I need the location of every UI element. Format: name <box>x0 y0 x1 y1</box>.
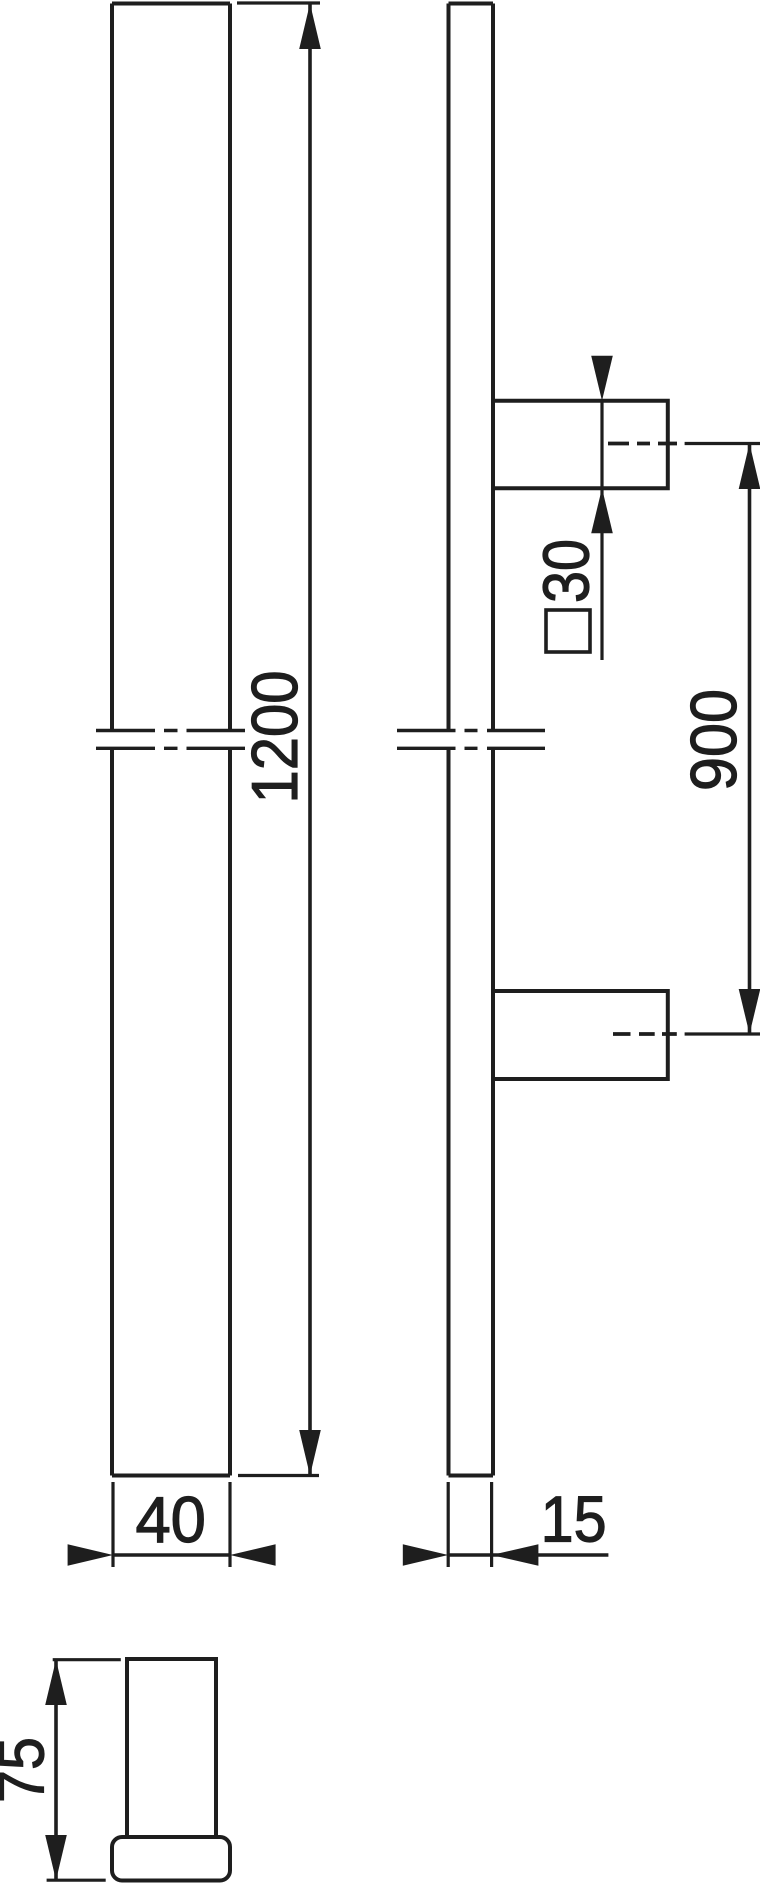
break lines right bar <box>397 731 545 749</box>
arrowhead 15 right (pointing left) <box>492 1544 539 1566</box>
svg-text:40: 40 <box>135 1483 206 1556</box>
arrowhead 900 bottom <box>739 989 760 1034</box>
arrowhead 40 left (pointing right) <box>68 1544 113 1566</box>
svg-text:75: 75 <box>0 1737 58 1803</box>
svg-text:30: 30 <box>530 539 603 603</box>
dimension 30 tail line below <box>600 488 603 660</box>
svg-text:15: 15 <box>541 1483 607 1556</box>
dimension 75 extension line top <box>53 1658 121 1661</box>
arrowhead 75 top <box>45 1660 67 1705</box>
dimension 15 tail line right <box>492 1553 609 1557</box>
dimension 75 line <box>54 1660 58 1881</box>
dimension 1200 extension line bottom <box>238 1474 319 1477</box>
arrowhead 900 top <box>739 444 760 490</box>
detail view post <box>127 1659 216 1837</box>
lower standoff dashed centerline <box>613 1032 677 1036</box>
dimension 900 extension line upper <box>685 442 760 445</box>
dimension 900 extension line lower <box>685 1032 760 1035</box>
square symbol of label 30 <box>546 610 590 652</box>
arrowhead 30 lower (pointing up) <box>591 488 613 533</box>
svg-text:1200: 1200 <box>238 671 311 804</box>
svg-text:900: 900 <box>677 689 750 791</box>
dimension 15 extension lines <box>448 1482 491 1567</box>
arrowhead 1200 bottom <box>299 1430 321 1476</box>
arrowhead 15 left (pointing right) <box>403 1544 448 1566</box>
upper standoff dashed centerline <box>608 442 677 446</box>
dimension 75 extension line bottom <box>47 1879 106 1882</box>
arrowhead 30 upper (pointing down) <box>591 356 613 401</box>
dimension 30 line through box <box>600 401 603 488</box>
dimension 15 line <box>448 1553 491 1557</box>
arrowhead 1200 top <box>299 4 321 50</box>
upper standoff box <box>493 401 668 488</box>
dimension 1200 line <box>308 4 312 1476</box>
lower standoff box <box>493 991 668 1079</box>
dimension 40 line <box>113 1553 230 1557</box>
arrowhead 75 bottom <box>45 1835 67 1880</box>
arrowhead 40 right (pointing left) <box>230 1544 276 1566</box>
break lines left bar <box>96 731 245 749</box>
dimension 1200 extension line top <box>237 1 320 4</box>
dimension 40 extension lines <box>113 1482 230 1567</box>
side view bar outline (right, with break gap) <box>449 4 494 1476</box>
detail view base plate <box>112 1837 230 1881</box>
dimension 900 line <box>748 444 752 1035</box>
front view bar outline (left, with break gap) <box>112 4 230 1476</box>
